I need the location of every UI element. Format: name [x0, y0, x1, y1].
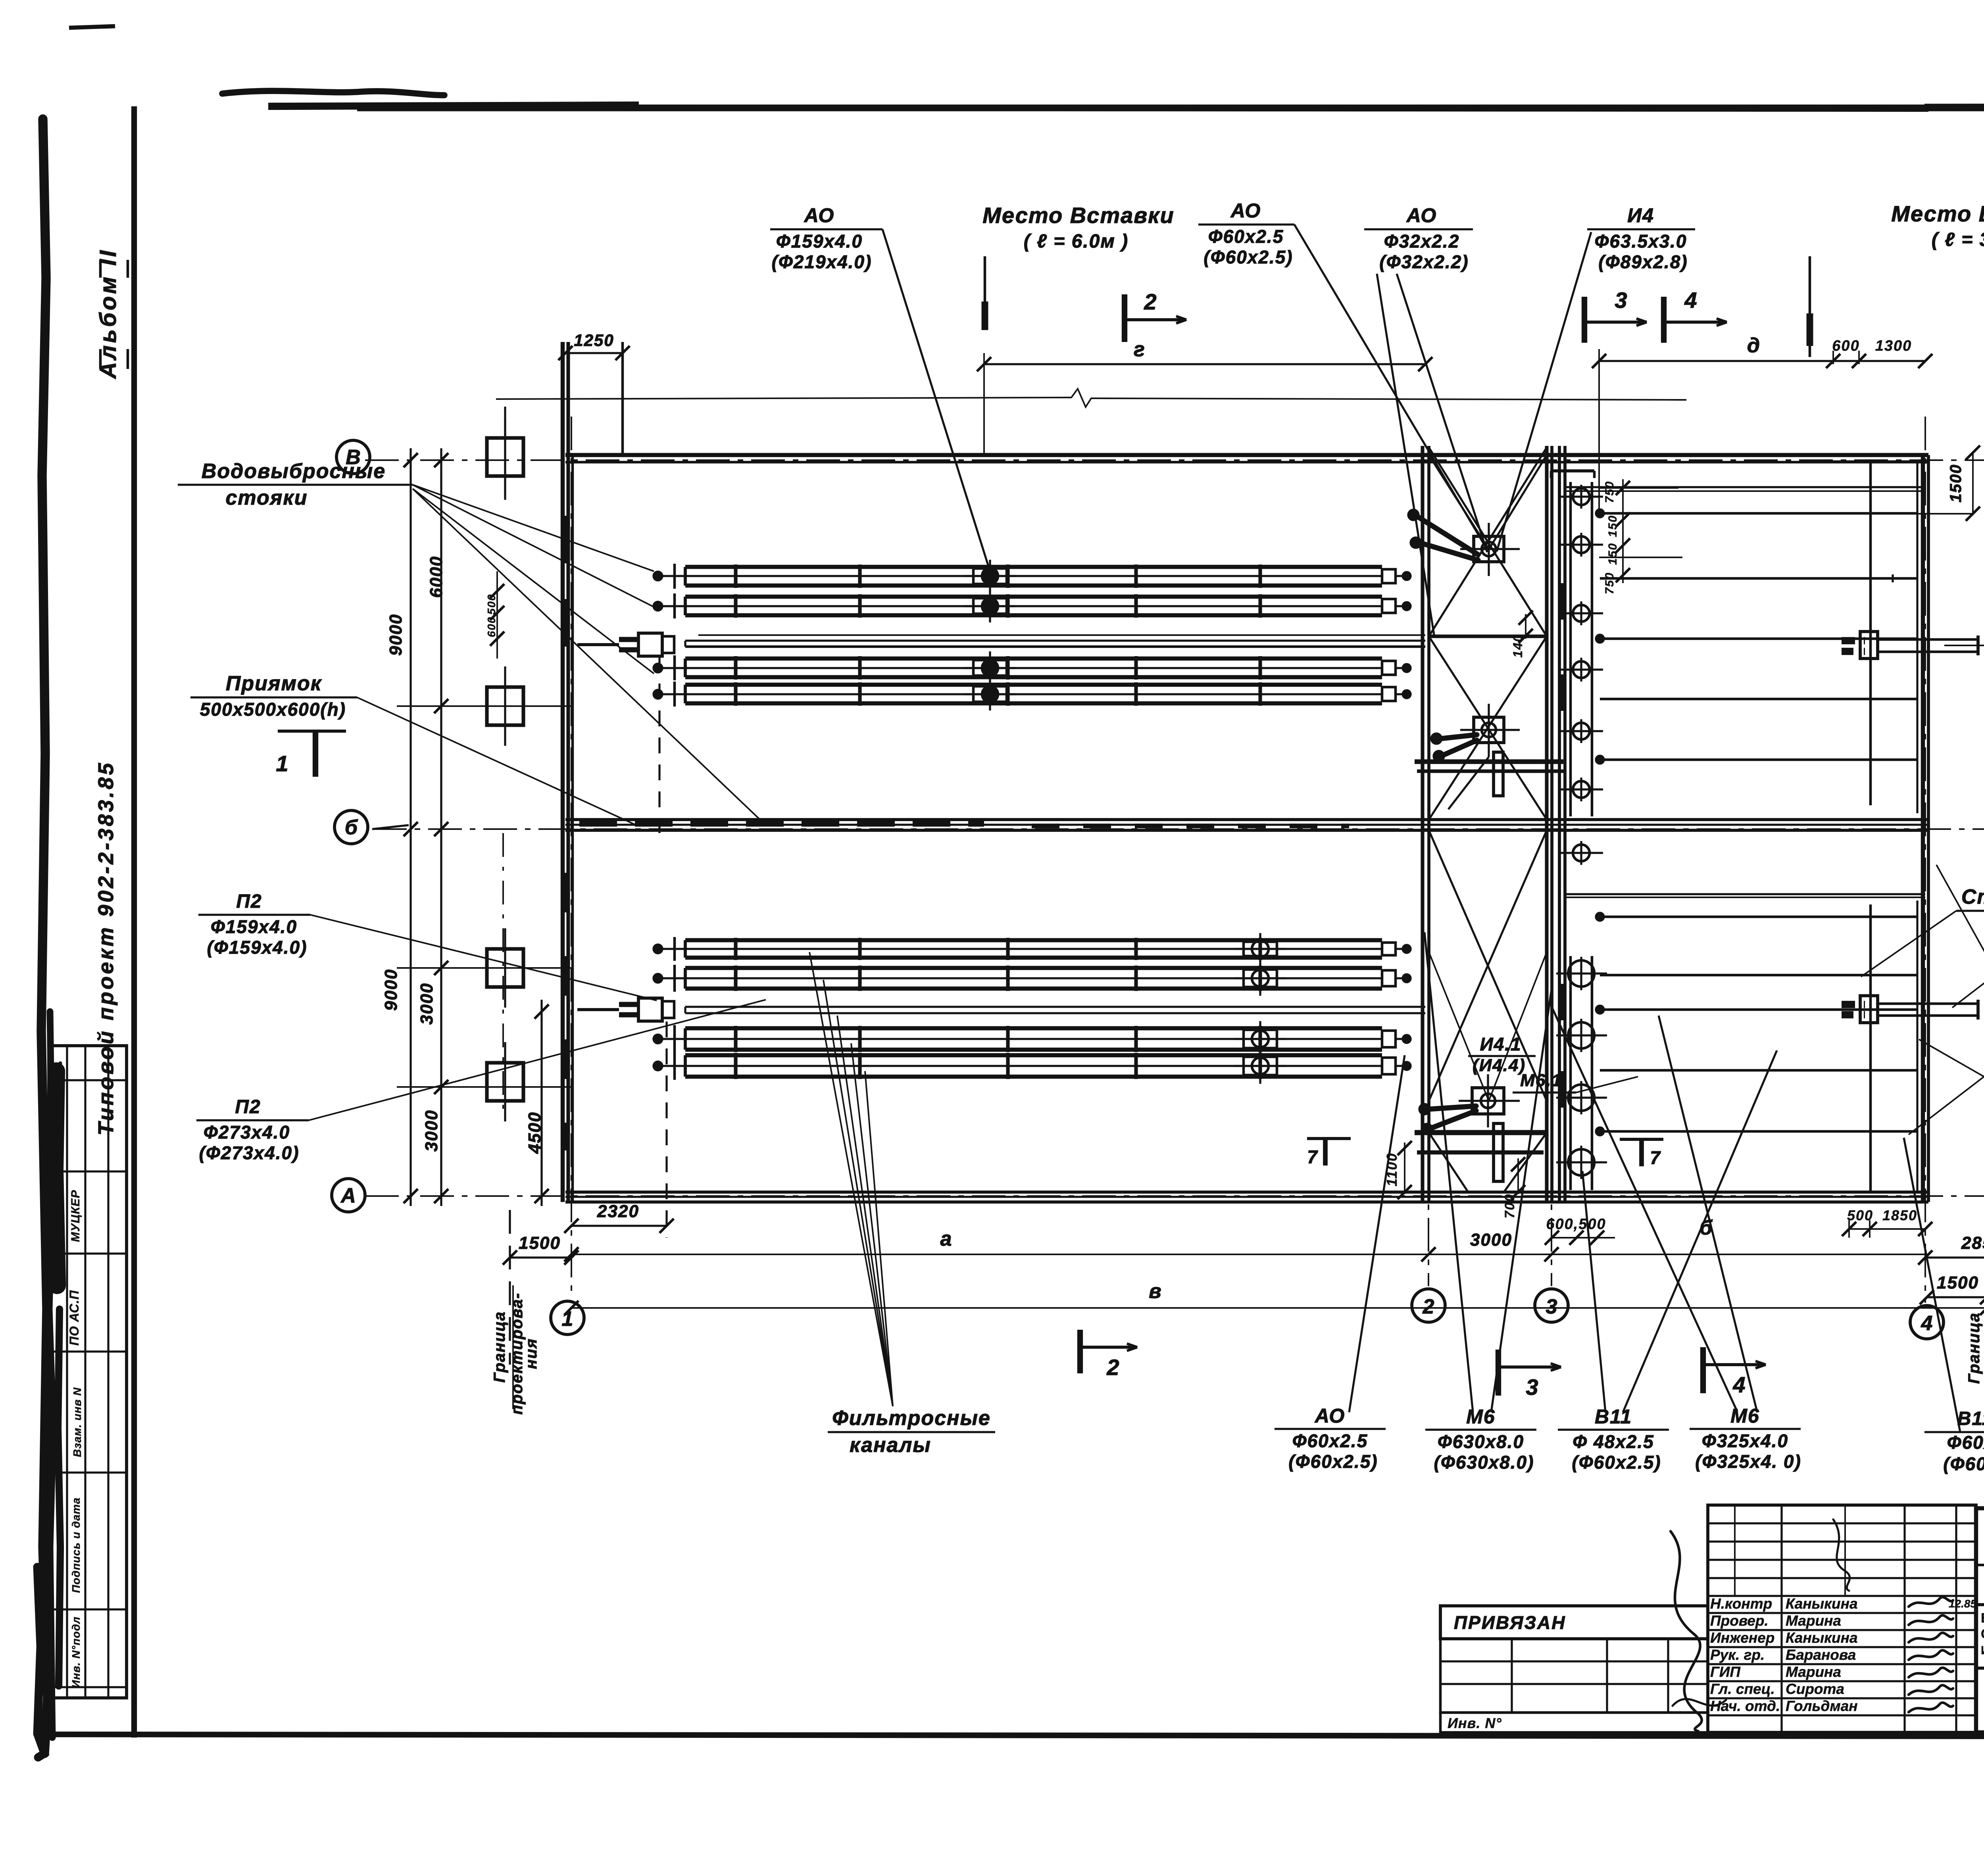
svg-text:ния: ния [523, 1338, 540, 1369]
section mark 4 top [1661, 297, 1667, 343]
svg-text:140: 140 [1511, 634, 1525, 657]
svg-text:(Ф32х2.2): (Ф32х2.2) [1379, 252, 1469, 272]
row extension lines through column squares [397, 705, 571, 707]
tank2 left pit assembly [638, 998, 662, 1021]
svg-text:Инв. N°: Инв. N° [1448, 1715, 1502, 1731]
filter channel 1.2 [685, 595, 1382, 599]
left stamp table [49, 1046, 127, 1698]
aerator fitting channel 2.3 [1244, 1030, 1277, 1048]
svg-text:АО: АО [1314, 1405, 1346, 1427]
end cap channel 1.1 [1382, 569, 1396, 583]
svg-text:Баранова: Баранова [1786, 1647, 1856, 1663]
axis line 3 (vertical dash-dot) [1551, 446, 1552, 1286]
left dim 4500 [540, 1000, 542, 1206]
right pipe tank2.2 [1600, 974, 1917, 977]
svg-text:Место Вставки: Место Вставки [1891, 201, 1984, 226]
leader shchit [1861, 911, 1956, 977]
svg-text:г: г [1134, 338, 1146, 361]
svg-text:И4.1: И4.1 [1480, 1034, 1521, 1054]
svg-text:Каныкина: Каныкина [1786, 1630, 1858, 1646]
svg-text:АО: АО [804, 204, 835, 227]
axis circle 2 [1412, 1289, 1445, 1322]
svg-text:1500: 1500 [1947, 464, 1965, 503]
svg-text:750: 750 [1603, 481, 1616, 503]
insert tick 2 [1809, 256, 1811, 357]
dim 1500 right of axis4 [1927, 1296, 1984, 1298]
dim 2320 [571, 1225, 667, 1227]
leader B11 right [1904, 1138, 1960, 1432]
svg-text:3: 3 [1615, 288, 1628, 313]
privyazan box [1440, 1606, 1708, 1639]
left paper edge dark band [41, 119, 48, 1753]
svg-text:600: 600 [1832, 338, 1859, 354]
svg-text:стояки: стояки [226, 486, 308, 509]
panel divider [1429, 634, 1547, 638]
axis line V (horizontal dash-dot) [365, 459, 1984, 461]
svg-text:МУЦКЕР: МУЦКЕР [69, 1190, 82, 1242]
dim line g (top) [984, 363, 1425, 365]
svg-text:1850: 1850 [1882, 1207, 1917, 1223]
svg-text:1250: 1250 [574, 331, 614, 349]
right compartment top line tank1 [1565, 486, 1925, 488]
ladder top connector [1551, 469, 1594, 472]
tank1 left pit assembly [638, 633, 662, 656]
tank2 central distribution pipe [685, 1006, 1425, 1008]
axis line A (horizontal dash-dot) [365, 1195, 1984, 1197]
riser dot channel 1.1 [654, 572, 662, 580]
svg-text:3000: 3000 [1470, 1230, 1512, 1250]
tank top wall (axis V) [565, 453, 1928, 457]
dims 750 150 150 750 [1622, 479, 1624, 583]
svg-text:Фильтросные: Фильтросные [832, 1407, 991, 1430]
svg-text:П2: П2 [235, 1096, 261, 1118]
svg-text:Водовыбросные: Водовыбросные [202, 460, 386, 483]
leaders B11 bottom [1582, 1171, 1605, 1412]
compartment inner top lines [1825, 460, 1917, 462]
tank1 central distribution pipe [698, 634, 1425, 636]
svg-text:4: 4 [1921, 1312, 1933, 1335]
title block main [1976, 1508, 1984, 1732]
svg-text:БЛОК АЭРОТЕНКОВ И ФЛОТАТОРОВ Д: БЛОК АЭРОТЕНКОВ И ФЛОТАТОРОВ ДЛЯ [1981, 1611, 1984, 1626]
insert tick 1 [984, 256, 986, 329]
svg-text:(Ф273х4.0): (Ф273х4.0) [199, 1142, 300, 1163]
svg-text:1: 1 [276, 751, 289, 776]
section mark 7 left [1307, 1137, 1351, 1140]
leader AO F60 [1294, 225, 1484, 544]
dim 700 [1517, 1158, 1519, 1194]
svg-text:В11: В11 [1957, 1408, 1984, 1429]
section mark 1 left [278, 730, 346, 733]
svg-text:Струенаправляющий: Струенаправляющий [1961, 885, 1984, 908]
axis line B (horizontal dash-dot) [373, 828, 1984, 830]
flange circles column [1573, 488, 1590, 505]
svg-text:б: б [345, 816, 358, 839]
svg-text:4: 4 [1684, 288, 1698, 313]
section mark 3 bottom [1496, 1350, 1501, 1396]
left dim chain 9000/9000 [409, 448, 411, 1206]
axis circle 3 [1535, 1289, 1568, 1322]
aerator fitting channel 2.1 [1244, 942, 1277, 956]
svg-text:750: 750 [1603, 572, 1616, 594]
dim 500 1850 bottom right of tank [1849, 1228, 1925, 1230]
svg-text:Взам. инв N: Взам. инв N [71, 1387, 83, 1457]
svg-text:Н.контр: Н.контр [1710, 1596, 1772, 1612]
svg-text:Инв. N°подл: Инв. N°подл [70, 1617, 82, 1688]
small table under privyazan [1440, 1639, 1708, 1713]
svg-text:Граница: Граница [1965, 1312, 1983, 1384]
svg-text:ПРИВЯЗАН: ПРИВЯЗАН [1454, 1612, 1566, 1633]
svg-text:(Ф60х2.5): (Ф60х2.5) [1943, 1454, 1984, 1474]
svg-text:7: 7 [1650, 1147, 1661, 1168]
end cap channel 2.2 [1382, 970, 1396, 986]
filter channel 2.1 [685, 938, 1382, 942]
svg-text:Гольдман: Гольдман [1786, 1698, 1858, 1714]
section mark 4 bottom [1700, 1347, 1706, 1393]
svg-text:Ф 48х2.5: Ф 48х2.5 [1573, 1431, 1654, 1452]
svg-text:АО: АО [1230, 200, 1261, 222]
svg-text:(Ф60х2.5): (Ф60х2.5) [1203, 247, 1293, 267]
svg-text:Приямок: Приямок [226, 672, 322, 695]
svg-text:Марина: Марина [1786, 1613, 1841, 1629]
svg-text:СТАНЦИЙ С ФЛОТАЦИОННЫМ: СТАНЦИЙ С ФЛОТАЦИОННЫМ [1981, 1626, 1984, 1642]
leader fan filtros channels [809, 952, 893, 1406]
dim 600 500 bottom center [1552, 1237, 1615, 1239]
right pipe tank1.3 [1600, 637, 1917, 640]
stamp signature squiggle [58, 1063, 62, 1166]
inner wall line right tank2 [1916, 901, 1918, 1192]
flotator wall pair [1558, 446, 1561, 1202]
svg-text:(Ф89х2.8): (Ф89х2.8) [1598, 252, 1688, 272]
right pipe tank1.2 [1600, 577, 1917, 580]
mixer fitting I4.1 [1472, 1088, 1504, 1114]
cross bars below fitting [1415, 759, 1563, 764]
flow guide shield tank1 [1869, 461, 1872, 805]
leaders P2 right [1936, 865, 1984, 974]
leaders M6 bottom [1425, 932, 1473, 1412]
end cap channel 1.3 [1382, 661, 1396, 675]
tank bottom wall (axis A) [565, 1191, 1928, 1194]
dim line d (top right) [1599, 360, 1925, 362]
frame top border [357, 105, 1984, 111]
right dim 1500 vertical [1972, 453, 1974, 514]
axis circle A [332, 1179, 365, 1212]
aerator fitting channel 1.1 [973, 568, 1007, 584]
end cap channel 2.3 [1382, 1031, 1396, 1047]
svg-text:а: а [940, 1227, 953, 1250]
svg-text:П2: П2 [236, 891, 262, 912]
end cap channel 2.4 [1382, 1058, 1396, 1074]
svg-text:2: 2 [1106, 1355, 1120, 1380]
svg-text:3000: 3000 [417, 983, 436, 1025]
svg-text:ИЛОРАЗДЕЛЕНИЕМ ПРОИЗВОДИТЕЛЬНО: ИЛОРАЗДЕЛЕНИЕМ ПРОИЗВОДИТЕЛЬНОСТЬЮ [1981, 1644, 1984, 1657]
svg-text:Ф60х2.5: Ф60х2.5 [1208, 226, 1284, 247]
mixer fitting I4 [1474, 536, 1504, 562]
central wall left pair [1421, 446, 1424, 1202]
svg-text:Провер.: Провер. [1710, 1613, 1769, 1629]
svg-text:(И4.4): (И4.4) [1473, 1056, 1526, 1075]
dim line b (delta) [1551, 1254, 1925, 1255]
dim 2850 bottom right [1925, 1256, 1984, 1258]
riser dot channel 1.2 [654, 602, 662, 611]
svg-text:Марина: Марина [1786, 1664, 1841, 1680]
central wall right pair [1545, 446, 1548, 1202]
aerator fitting channel 1.4 [973, 686, 1007, 702]
flow guide shield tank2 [1869, 904, 1872, 1192]
svg-text:Сирота: Сирота [1786, 1681, 1844, 1697]
right pipe tank2.1 [1600, 916, 1917, 918]
svg-text:Ф159х4.0: Ф159х4.0 [776, 231, 863, 252]
svg-text:3: 3 [1546, 1295, 1557, 1318]
svg-text:Ф273х4.0: Ф273х4.0 [204, 1122, 290, 1142]
aerator fitting channel 2.4 [1244, 1057, 1277, 1075]
big scribble left of names table [1671, 1531, 1702, 1731]
leaders stoyaki [413, 485, 654, 571]
dim 140 [1525, 614, 1526, 639]
axis circle 1 [551, 1301, 584, 1335]
svg-text:(Ф60х2.5): (Ф60х2.5) [1288, 1451, 1378, 1472]
column squares on left wall [487, 438, 523, 476]
svg-text:Гл. спец.: Гл. спец. [1710, 1681, 1775, 1697]
tank1 mid pipe wall fitting right [1842, 637, 1865, 644]
inner wall line right tank1 [1916, 461, 1918, 813]
svg-text:ПО АС.П: ПО АС.П [67, 1290, 81, 1346]
frame left border [131, 106, 137, 1738]
dim 1100 [1404, 1142, 1405, 1194]
leader P2 F273 [309, 1000, 766, 1120]
svg-text:Граница: Граница [491, 1311, 508, 1383]
svg-text:6000: 6000 [427, 556, 446, 598]
right pipe tank1.4 [1600, 698, 1917, 701]
filter channel 2.2 [685, 966, 1382, 970]
svg-text:(Ф630х8.0): (Ф630х8.0) [1434, 1452, 1534, 1473]
svg-text:3: 3 [1526, 1375, 1539, 1400]
svg-text:д: д [1747, 334, 1761, 357]
tank middle wall (axis B) [565, 818, 1928, 821]
svg-text:АО: АО [1406, 204, 1437, 227]
svg-text:(Ф219х4.0): (Ф219х4.0) [772, 252, 872, 272]
filter channel 1.3 [685, 657, 1382, 661]
svg-text:2: 2 [1423, 1295, 1434, 1318]
svg-text:Каныкина: Каныкина [1786, 1596, 1858, 1612]
filter channel 1.1 [685, 565, 1382, 569]
svg-text:1500: 1500 [1937, 1273, 1979, 1292]
svg-text:(Ф325х4. 0): (Ф325х4. 0) [1695, 1451, 1801, 1472]
leaders AO F32 [1377, 274, 1434, 635]
svg-text:2850: 2850 [1961, 1233, 1984, 1253]
svg-text:( ℓ = 6.0м ): ( ℓ = 6.0м ) [1024, 231, 1128, 252]
dark stubs beside wall [1559, 583, 1566, 620]
axis line 4 (vertical dash-dot) [1924, 417, 1926, 1303]
svg-text:Рук. гр.: Рук. гр. [1710, 1647, 1765, 1663]
svg-text:( ℓ = 3.0м ): ( ℓ = 3.0м ) [1932, 229, 1984, 250]
aerator fitting channel 1.2 [973, 598, 1007, 614]
right compartment top line tank2 [1565, 893, 1925, 895]
svg-text:в: в [1149, 1280, 1162, 1303]
filter channel 2.4 [685, 1053, 1382, 1057]
riser dot channel 2.2 [654, 974, 662, 983]
axis line 1 (vertical dash-dot) [571, 417, 572, 1298]
svg-text:(Ф159х4.0): (Ф159х4.0) [207, 937, 308, 958]
boundary line left (granitsa) [509, 1210, 511, 1365]
stamp smudge Soglasovano [55, 1071, 57, 1285]
svg-text:1500: 1500 [519, 1233, 561, 1253]
frame bottom border [52, 1734, 1984, 1737]
svg-text:И4: И4 [1627, 204, 1654, 227]
dash line through squares below B [502, 833, 504, 1111]
svg-text:М6.1: М6.1 [1520, 1071, 1562, 1090]
svg-text:700: 700 [1502, 1194, 1517, 1219]
svg-text:9000: 9000 [381, 969, 401, 1011]
leaders M6-2 bottom [1550, 1003, 1737, 1411]
right pipe tank2.3 [1600, 1008, 1917, 1011]
right pipe tank1.5 [1600, 758, 1917, 761]
leader P2 F159 [310, 915, 657, 1000]
riser dot channel 2.4 [654, 1062, 662, 1070]
svg-text:(Ф60х2.5): (Ф60х2.5) [1572, 1452, 1661, 1473]
leader priyamok [357, 697, 638, 826]
svg-text:Ф159х4.0: Ф159х4.0 [211, 916, 297, 937]
svg-text:Ф32х2.2: Ф32х2.2 [1384, 231, 1460, 252]
right pipe tank1.1 [1600, 512, 1917, 515]
dim 3000 bottom [1428, 1254, 1551, 1255]
leaders V12 right [1919, 1039, 1984, 1077]
svg-text:4500: 4500 [525, 1112, 544, 1154]
svg-text:500: 500 [485, 594, 498, 615]
svg-text:150: 150 [1606, 543, 1619, 565]
svg-text:В11: В11 [1595, 1406, 1632, 1428]
cross brace panel 1 lower X [1429, 636, 1547, 820]
leader I4 [1497, 232, 1591, 551]
cross brace panel 2 (B-A) [1429, 830, 1547, 1101]
dim 1500 bottom left [510, 1256, 571, 1258]
small dims 500 600 [496, 571, 498, 659]
end cap channel 1.2 [1382, 599, 1396, 613]
riser dot channel 1.4 [654, 690, 662, 699]
tank right wall [1921, 455, 1925, 1202]
svg-text:3000: 3000 [422, 1110, 441, 1152]
aerator fitting channel 1.3 [973, 660, 1007, 676]
svg-text:Ф630х8.0: Ф630х8.0 [1438, 1431, 1524, 1452]
inv N box [1440, 1713, 1708, 1732]
ladder rails [1569, 482, 1572, 816]
right pipe tank2.5 [1600, 1130, 1917, 1133]
end cap channel 2.1 [1382, 943, 1396, 955]
leader AO bottom [1349, 1055, 1405, 1412]
svg-text:12.85: 12.85 [1949, 1598, 1976, 1610]
tank2 mid pipe wall fitting right [1842, 1001, 1865, 1008]
svg-text:2: 2 [1144, 289, 1157, 314]
svg-text:1300: 1300 [1875, 338, 1912, 354]
svg-text:Инженер: Инженер [1710, 1630, 1774, 1646]
cross brace panel 1 upper X [1429, 447, 1547, 636]
right pipe tank2.4 [1600, 1069, 1917, 1072]
thin line with break mark [496, 397, 1071, 399]
svg-text:Ф60х2.5: Ф60х2.5 [1947, 1432, 1984, 1453]
svg-text:600: 600 [485, 616, 498, 637]
end cap channel 1.4 [1382, 687, 1396, 701]
svg-text:Место Вставки: Место Вставки [982, 203, 1174, 228]
riser dot channel 2.3 [654, 1035, 662, 1043]
riser dot channel 1.3 [654, 664, 662, 672]
vertical dash line from tank1 pit [658, 657, 660, 833]
svg-text:Ф60х2.5: Ф60х2.5 [1292, 1431, 1368, 1451]
names table [1708, 1505, 1976, 1732]
svg-text:500х500х600(h): 500х500х600(h) [200, 699, 346, 720]
svg-text:600,500: 600,500 [1546, 1216, 1606, 1233]
section mark 3 top [1582, 297, 1587, 343]
svg-text:ГИП: ГИП [1710, 1664, 1741, 1680]
filter channel 1.4 [685, 683, 1382, 687]
signature squiggles [1909, 1597, 1953, 1607]
filter channel 2.3 [685, 1026, 1382, 1030]
axis circle 4 [1910, 1306, 1944, 1339]
dim line v [571, 1307, 1984, 1309]
axis circle B [335, 810, 368, 844]
dim 1250 top left [565, 352, 623, 354]
svg-text:Ф325х4.0: Ф325х4.0 [1702, 1431, 1788, 1451]
svg-text:А: А [340, 1184, 356, 1207]
svg-text:проектирования: проектирования [1982, 1279, 1984, 1427]
axis line 2 (vertical dash-dot) [1428, 446, 1429, 1286]
svg-text:4: 4 [1732, 1372, 1746, 1397]
section mark 2 bottom [1077, 1330, 1083, 1373]
svg-text:Нач. отд.: Нач. отд. [1710, 1698, 1780, 1714]
section mark 2 top [1122, 294, 1127, 342]
mixer fitting M6 upper [1474, 717, 1504, 743]
svg-text:9000: 9000 [386, 614, 406, 656]
vertical dash line from tank2 pit [665, 1022, 667, 1238]
svg-text:7: 7 [1307, 1146, 1318, 1167]
cross bars lower [1415, 1130, 1547, 1135]
leader AO F159 [882, 229, 990, 571]
svg-text:Ф63.5х3.0: Ф63.5х3.0 [1595, 231, 1687, 252]
left dim chain 6000/3000/3000 [440, 448, 442, 1206]
svg-text:Подпись и дата: Подпись и дата [70, 1498, 82, 1593]
offset line 1250 right of axis 1 [621, 342, 624, 455]
axis circle V [336, 440, 370, 474]
tank left wall [561, 342, 565, 1202]
aerator fitting channel 2.2 [1244, 970, 1277, 987]
dim line a [571, 1254, 1428, 1255]
svg-text:каналы: каналы [850, 1434, 931, 1457]
svg-text:2320: 2320 [597, 1202, 639, 1221]
riser dot channel 2.1 [654, 945, 662, 953]
section mark 7 right [1620, 1138, 1663, 1141]
